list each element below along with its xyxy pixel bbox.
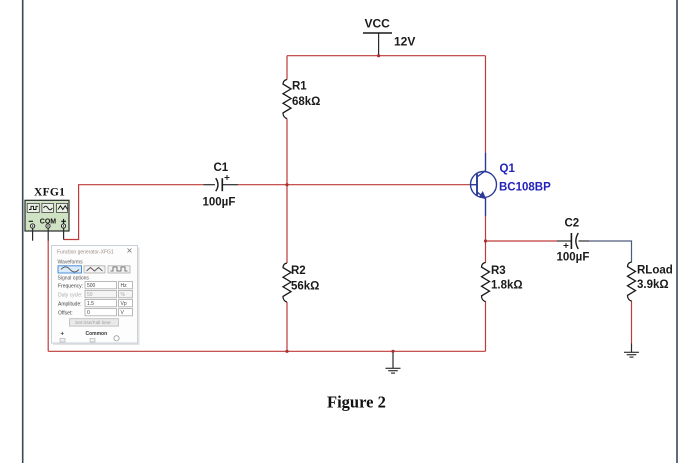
svg-text:RLoad: RLoad — [637, 264, 673, 276]
svg-text:Amplitude:: Amplitude: — [58, 301, 82, 307]
svg-text:C1: C1 — [214, 162, 229, 174]
svg-text:XFG1: XFG1 — [34, 187, 65, 199]
svg-text:68kΩ: 68kΩ — [292, 96, 320, 108]
svg-text:BC108BP: BC108BP — [499, 182, 551, 194]
svg-text:%: % — [121, 292, 126, 298]
svg-text:1.8kΩ: 1.8kΩ — [491, 280, 523, 292]
svg-text:56kΩ: 56kΩ — [291, 281, 319, 293]
svg-text:1.5: 1.5 — [87, 301, 94, 307]
svg-text:C2: C2 — [565, 218, 580, 230]
svg-text:Duty cycle:: Duty cycle: — [58, 292, 82, 298]
svg-text:+: + — [61, 332, 65, 338]
svg-text:R2: R2 — [291, 265, 306, 277]
svg-text:Function generator-XFG1: Function generator-XFG1 — [57, 250, 114, 256]
svg-text:Frequency:: Frequency: — [58, 283, 83, 289]
svg-text:R1: R1 — [292, 80, 307, 92]
svg-text:Offset:: Offset: — [58, 310, 73, 316]
svg-text:0: 0 — [87, 310, 90, 316]
svg-text:Common: Common — [86, 331, 108, 337]
svg-text:Signal options: Signal options — [58, 276, 90, 282]
svg-text:Waveforms: Waveforms — [58, 260, 84, 266]
svg-text:R3: R3 — [491, 265, 506, 277]
svg-text:500: 500 — [87, 283, 96, 289]
svg-text:Hz: Hz — [121, 283, 128, 289]
svg-text:3.9kΩ: 3.9kΩ — [637, 279, 669, 291]
svg-text:100µF: 100µF — [203, 197, 236, 209]
svg-text:100µF: 100µF — [557, 251, 590, 263]
svg-text:Vp: Vp — [121, 301, 127, 307]
svg-text:Q1: Q1 — [500, 163, 516, 175]
svg-text:12V: 12V — [394, 34, 415, 48]
svg-text:50: 50 — [87, 292, 93, 298]
svg-text:Figure 2: Figure 2 — [327, 393, 386, 412]
svg-text:Set rise/Fall time: Set rise/Fall time — [75, 320, 111, 326]
svg-text:VCC: VCC — [365, 17, 391, 31]
